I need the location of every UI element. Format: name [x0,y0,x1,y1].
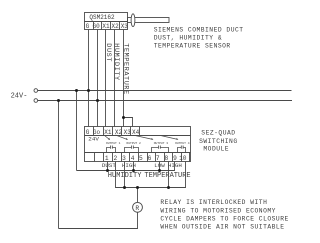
svg-text:X2: X2 [115,129,123,136]
svg-text:SEZ-QUAD: SEZ-QUAD [201,129,235,136]
svg-text:TEMPERATURE: TEMPERATURE [121,43,129,94]
leader arrow output 4 [160,135,178,139]
dot feed terminal 7 [158,169,161,172]
svg-text:24V: 24V [88,136,99,143]
wire feed drop from 24V~ [76,91,78,171]
wire G0 sensor to module [97,30,99,127]
module name text SEZ-QUAD SWITCHING MODULE [199,129,238,152]
svg-text:HUMIDITY: HUMIDITY [112,43,120,80]
svg-text:G: G [86,23,90,30]
svg-text:CYCLE DAMPERS TO FORCE CLOSURE: CYCLE DAMPERS TO FORCE CLOSURE [160,216,288,223]
svg-text:DUST: DUST [102,162,116,169]
svg-text:8: 8 [165,155,169,162]
contact output1 terminals 1-2 [107,146,116,153]
sensor description text [154,26,244,49]
wire terminal 8 to collector [168,162,170,188]
wire X3 temperature signal [123,30,125,127]
dot G0 at bus [96,99,99,102]
wire relay to 24V- return [59,212,138,228]
svg-text:9: 9 [173,155,177,162]
module top terminal labels [86,129,140,136]
dot collector relay [136,186,139,189]
supply terminal circle top [34,89,38,93]
svg-text:7: 7 [156,155,160,162]
module SEZ box outline [85,127,191,162]
svg-text:WHEN OUTSIDE AIR NOT SUITABLE: WHEN OUTSIDE AIR NOT SUITABLE [160,224,284,231]
sensor QSM2162 box [85,13,128,22]
wire X3 branch to X4 [124,118,133,127]
svg-text:QSM2162: QSM2162 [89,14,115,21]
svg-text:6: 6 [148,155,152,162]
terminal labels G G0 X1 X2 X3 [86,23,129,30]
svg-text:X1: X1 [102,23,110,30]
svg-text:X4: X4 [132,129,140,136]
svg-text:R: R [135,205,139,212]
relay note text [160,199,288,230]
module top terminal row line [85,135,191,137]
dot collector terminal 3 [123,186,126,189]
contact output4 terminals 9-10 [178,146,186,153]
dot collector terminal 8 [167,186,170,189]
svg-text:24V-: 24V- [11,92,28,100]
wire X1 dust signal [105,30,107,127]
junction dots [57,89,170,189]
svg-text:1: 1 [105,155,109,162]
svg-text:DUST, HUMIDITY &: DUST, HUMIDITY & [154,34,222,41]
stub terminal 7 [159,162,161,171]
svg-text:G0: G0 [93,23,101,30]
leader arrow output 2 [116,135,128,139]
svg-text:OUTPUT 2: OUTPUT 2 [126,142,141,145]
feed wire 24V~ to contacts [77,162,175,171]
svg-text:OUTPUT 1: OUTPUT 1 [106,142,121,145]
module bottom terminal row line [85,152,191,154]
dot feed terminal 4 [132,169,135,172]
probe flange ellipse [131,14,135,27]
supply terminal circle bottom [34,99,38,103]
wire G sensor to module [88,30,90,127]
svg-text:X1: X1 [104,129,112,136]
svg-text:TEMPERATURE SENSOR: TEMPERATURE SENSOR [154,42,231,49]
wire terminal 3 to collector [124,162,126,188]
svg-text:RELAY IS INTERLOCKED WITH: RELAY IS INTERLOCKED WITH [160,199,267,206]
probe tube [128,18,170,23]
svg-text:5: 5 [139,155,143,162]
dot feed at bus [75,89,78,92]
dot G at bus [87,89,90,92]
stub terminal 1 [107,162,109,171]
wire X2 humidity signal [114,30,116,127]
svg-text:WIRING TO MOTORISED ECONOMY: WIRING TO MOTORISED ECONOMY [160,207,276,214]
sensor terminal row G G0 X1 X2 X3 [85,22,128,30]
svg-text:4: 4 [131,155,135,162]
svg-text:OUTPUT 3: OUTPUT 3 [154,142,169,145]
bus 24V~ top line [38,90,292,92]
module top cells dividers [93,127,95,136]
svg-text:X3: X3 [121,23,129,30]
svg-text:10: 10 [179,155,187,162]
svg-text:SIEMENS COMBINED DUCT: SIEMENS COMBINED DUCT [154,26,244,33]
contact output3 terminals 6-7-8 [152,146,169,153]
leader arrow output 1 [104,135,109,139]
dot X3 branch [122,116,125,119]
module bottom cells dividers [94,153,96,162]
bus 24V- bottom line [38,100,292,102]
module bottom terminal numbers [105,155,187,162]
svg-text:2: 2 [114,155,118,162]
svg-text:HUMIDITY: HUMIDITY [108,172,142,180]
contact output2 terminals 3-4-5 [125,146,139,153]
relay R circle [133,202,143,212]
svg-text:OUTPUT 4: OUTPUT 4 [175,142,190,145]
svg-text:X3: X3 [124,129,132,136]
svg-text:3: 3 [122,155,126,162]
labels under module row [102,162,182,169]
dot return at bus [57,99,60,102]
stub terminal 4 [133,162,135,171]
svg-text:MODULE: MODULE [203,146,229,153]
wire return drop from 24V- [58,101,60,229]
wire terminal 2 to collector [116,162,186,188]
leader arrow output 3 [135,135,153,139]
svg-text:SWITCHING: SWITCHING [199,138,238,145]
svg-text:X2: X2 [112,23,120,30]
svg-text:DUST: DUST [104,43,112,62]
wire collector to relay [137,188,139,203]
dot feed terminal 1 [106,169,109,172]
svg-text:TEMPERATURE: TEMPERATURE [144,172,190,180]
svg-text:HIGH: HIGH [168,162,182,169]
